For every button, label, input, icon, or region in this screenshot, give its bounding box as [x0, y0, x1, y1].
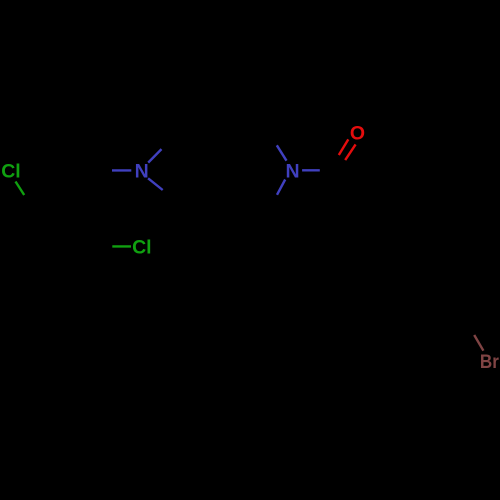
bond Br-C (half-bond, dark red) [474, 335, 483, 351]
bond C=O double line 2 (half-bond, red) [345, 144, 355, 160]
bond C=O double line 1 (half-bond, red) [339, 139, 349, 155]
svg-text:N: N [286, 161, 300, 183]
bond Cl2-C (half-bond, green) [112, 245, 131, 247]
svg-text:N: N [135, 161, 149, 183]
svg-text:Cl: Cl [1, 161, 21, 183]
bond N2-C(=O) east (half-bond, blue) [302, 169, 320, 171]
bond Cl1-C (half-bond, green) [16, 182, 25, 196]
bond N1-C northeast (half-bond, blue) [148, 149, 161, 163]
bond N2-C southwest (half-bond, blue) [277, 180, 285, 195]
bond N2-C northwest (half-bond, blue) [277, 145, 287, 160]
svg-text:O: O [350, 122, 365, 144]
svg-text:Cl: Cl [132, 237, 152, 259]
bond N1-C southeast (half-bond, blue) [148, 178, 163, 190]
bond N1-C west (half-bond, blue) [112, 169, 131, 171]
svg-text:Br: Br [480, 351, 499, 373]
